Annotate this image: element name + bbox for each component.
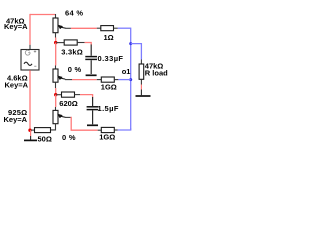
- wire middle rail to pot R2: [55, 43, 57, 66]
- ground under C2: [87, 124, 98, 126]
- wire left rail lower: [29, 70, 31, 130]
- wire blue branch to R load: [131, 44, 142, 60]
- lead 620 right: [75, 94, 81, 96]
- wire stub red to ground right: [140, 85, 142, 90]
- svg-text:1GΩ: 1GΩ: [101, 83, 117, 92]
- lead 1G-bottom right: [114, 129, 118, 131]
- svg-text:1.5µF: 1.5µF: [98, 104, 119, 113]
- svg-text:Key=A: Key=A: [4, 22, 28, 31]
- ground bottom-left: [24, 136, 37, 140]
- junction node o1 upper: [129, 42, 132, 45]
- lead source V1 top: [29, 45, 31, 50]
- resistor 50 with value label: [35, 128, 51, 133]
- potentiometer R1 64%: [53, 14, 66, 38]
- junction node o1 middle: [129, 78, 132, 81]
- junction node left-bottom: [28, 129, 31, 132]
- svg-text:R load: R load: [145, 69, 168, 78]
- junction node B: [54, 93, 57, 96]
- svg-text:0.33µF: 0.33µF: [98, 54, 124, 63]
- svg-text:3.3kΩ: 3.3kΩ: [61, 48, 83, 57]
- wire top horizontal from left rail to pot R1 top: [30, 14, 56, 16]
- wire left rail upper: [29, 14, 31, 45]
- ground under C1: [86, 74, 97, 76]
- resistor 620 with value label: [62, 92, 75, 97]
- svg-text:0 %: 0 %: [68, 65, 82, 74]
- wire blue 1G mid to rail: [118, 79, 130, 81]
- wire middle rail R1 to junction: [55, 38, 57, 43]
- svg-text:Key=A: Key=A: [4, 115, 28, 124]
- wire stub to ground bottom-left: [30, 130, 32, 136]
- lead 620 left: [56, 94, 62, 96]
- svg-text:0 %: 0 %: [62, 133, 76, 142]
- lead R2 1-ohm left: [97, 27, 101, 29]
- lead 1G-mid right: [114, 79, 118, 81]
- wiper wire R3 down and right: [65, 116, 71, 118]
- resistor 1G middle with value label: [101, 77, 114, 82]
- resistor 1G bottom with value label: [101, 127, 114, 132]
- lead 1G-mid left: [97, 79, 102, 81]
- wire wiper R1 to R2 node: [66, 27, 71, 29]
- resistor R load 47k with value labels: [139, 64, 144, 79]
- wiper wire R2 to 1G mid: [65, 79, 72, 81]
- wire rail to pot R3 top: [55, 95, 57, 107]
- svg-text:1GΩ: 1GΩ: [99, 133, 115, 142]
- resistor 3.3k with value label: [64, 40, 77, 45]
- lead 3.3k left: [56, 42, 64, 44]
- wire rail R2 junction to pot R3: [55, 88, 57, 95]
- svg-text:50Ω: 50Ω: [38, 134, 52, 143]
- output rail blue vertical: [130, 28, 132, 130]
- wire blue to output rail: [118, 27, 131, 29]
- svg-text:o1: o1: [122, 67, 131, 76]
- lead R-load top: [140, 60, 142, 65]
- wire to cap C1: [85, 43, 92, 46]
- wire blue bottom to rail: [118, 129, 131, 131]
- potentiometer R3 0%: [51, 107, 66, 130]
- wire to cap C2: [80, 95, 93, 98]
- lead 1G-bottom left: [98, 129, 102, 131]
- svg-text:64 %: 64 %: [65, 8, 83, 17]
- lead R-load bottom: [140, 79, 142, 84]
- capacitor C1 0.33uF: [85, 45, 97, 75]
- lead R2 1-ohm right: [114, 27, 118, 29]
- ground right: [136, 90, 151, 97]
- svg-text:1Ω: 1Ω: [104, 33, 114, 42]
- potentiometer R2 0%: [53, 66, 65, 89]
- lead resistor 50 left: [31, 129, 35, 131]
- lead 3.3k right: [77, 42, 84, 44]
- capacitor C2 1.5uF: [87, 97, 99, 124]
- function generator V1 box: [21, 50, 39, 71]
- junction node A: [54, 41, 57, 44]
- svg-text:620Ω: 620Ω: [59, 99, 78, 108]
- resistor R2 1-ohm with value label: [101, 26, 114, 31]
- svg-text:Key=A: Key=A: [5, 80, 29, 89]
